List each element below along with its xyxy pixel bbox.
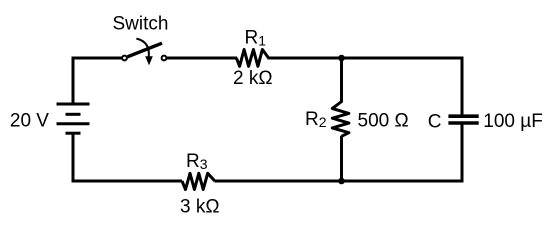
- node: bottom junction dot: [338, 178, 345, 185]
- node: top junction dot: [338, 55, 345, 62]
- wire: top horizontal, switch to R1: [167, 57, 238, 60]
- svg-text:500 Ω: 500 Ω: [358, 110, 409, 131]
- capacitor C plates: [448, 116, 478, 123]
- svg-text:100 µF: 100 µF: [483, 111, 543, 132]
- svg-text:R3: R3: [186, 151, 208, 172]
- svg-text:3 kΩ: 3 kΩ: [180, 196, 220, 217]
- wire: bottom horizontal left segment: [72, 180, 183, 183]
- svg-text:20 V: 20 V: [10, 110, 49, 131]
- battery 20 V: [57, 104, 90, 133]
- svg-text:R2: R2: [305, 109, 327, 130]
- wire: left vertical lower (battery to bottom corner): [72, 133, 75, 182]
- resistor R3 zigzag: [182, 173, 215, 189]
- svg-text:2 kΩ: 2 kΩ: [233, 68, 273, 89]
- wire: bottom horizontal right segment: [215, 180, 464, 183]
- svg-text:R1: R1: [245, 27, 267, 48]
- switch blade: [128, 43, 163, 57]
- wire: left vertical upper (corner down to battery): [72, 57, 75, 105]
- switch left terminal circle: [122, 56, 127, 61]
- wire: right vertical upper (corner to capacitor): [461, 57, 464, 117]
- wire: middle branch lower: [340, 136, 343, 181]
- resistor R2 zigzag (vertical): [332, 102, 349, 137]
- switch motion arrow: [136, 39, 148, 57]
- svg-text:C: C: [428, 111, 442, 132]
- wire: top-left horizontal from left corner to switch: [72, 57, 123, 60]
- wire: right vertical lower (capacitor to bottom corner): [461, 123, 464, 183]
- wire: middle branch upper: [340, 58, 343, 103]
- wire: top horizontal, R1 to right corner: [268, 57, 464, 60]
- resistor R1 zigzag: [236, 50, 268, 67]
- switch: [122, 39, 166, 66]
- switch right terminal circle: [162, 56, 167, 61]
- svg-text:Switch: Switch: [113, 14, 169, 35]
